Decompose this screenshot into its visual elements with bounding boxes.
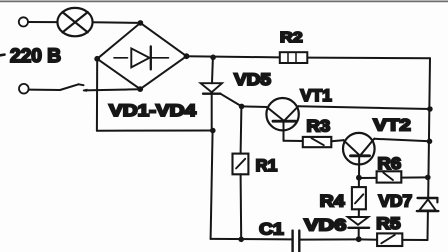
wire node to VT1 <box>242 105 267 108</box>
svg-text:R3: R3 <box>307 118 331 136</box>
wire node to R6 <box>359 177 377 179</box>
node VD5 top <box>210 55 216 61</box>
node bridge top <box>138 20 144 26</box>
bridge rectifier VD1-VD4 <box>97 23 140 59</box>
wire R4 to VD6 <box>358 209 360 217</box>
svg-text:R1: R1 <box>256 157 278 175</box>
resistor R1 <box>233 154 249 175</box>
svg-text:VD6: VD6 <box>304 217 346 235</box>
resistor R4 <box>352 187 366 209</box>
right rail <box>428 58 430 197</box>
label ~ 220 V <box>0 53 5 56</box>
diode VD5 <box>211 57 214 83</box>
wire lamp to bridge top <box>93 21 141 24</box>
svg-text:C1: C1 <box>259 220 284 238</box>
wire node to R4 <box>358 178 360 187</box>
wire VT2 emitter to right rail <box>374 139 429 142</box>
svg-text:R5: R5 <box>376 215 400 233</box>
wire node down to R1 <box>240 106 243 153</box>
capacitor C1 <box>291 231 293 252</box>
lamp HL1 <box>57 8 92 36</box>
switch SA1 <box>29 89 60 91</box>
svg-text:VD5: VD5 <box>234 71 271 89</box>
node bridge left <box>94 56 100 62</box>
diode symbol inside bridge <box>114 57 128 59</box>
terminal X1 (top left) <box>19 17 28 26</box>
terminal X2 (bottom left) <box>19 84 29 94</box>
scan border top <box>0 0 448 2</box>
svg-text:VD7: VD7 <box>379 193 413 211</box>
zener VD7 <box>418 197 438 199</box>
svg-text:VT1: VT1 <box>300 87 331 105</box>
svg-text:220 В: 220 В <box>10 46 61 67</box>
wire switch to bridge bottom <box>83 89 87 91</box>
wire R6 to rail <box>401 176 428 178</box>
node left mid <box>210 128 216 134</box>
wire R5 to rail corner <box>402 239 427 241</box>
wire top rail <box>187 56 280 57</box>
svg-text:VD1-VD4: VD1-VD4 <box>109 102 197 120</box>
svg-text:VT2: VT2 <box>373 116 411 134</box>
wire bottom rail left <box>211 238 292 241</box>
svg-text:R4: R4 <box>320 192 346 210</box>
wire VT1 base to R3 <box>284 140 303 142</box>
resistor R3 <box>303 137 332 147</box>
resistor R2 <box>280 52 308 63</box>
wire terminal to lamp <box>28 21 57 23</box>
diode VD6 <box>348 217 369 225</box>
wire left vertical to bottom rail <box>211 131 213 239</box>
wire bottom left horizontal <box>97 130 213 132</box>
svg-text:R6: R6 <box>378 155 402 173</box>
node VD5/VT1 <box>239 104 245 110</box>
wire R3 to VT2 <box>331 140 343 141</box>
svg-text:R2: R2 <box>280 29 303 46</box>
node bridge bottom <box>137 86 143 92</box>
wire bridge left down <box>96 59 98 131</box>
wire C1 to VD6 node <box>300 238 359 240</box>
node VT2 base <box>356 175 362 181</box>
resistor R5 <box>377 233 402 246</box>
wire VT1 emitter to right rail <box>298 106 430 109</box>
transistor VT1 <box>266 98 298 130</box>
transistor VT2 <box>343 133 375 165</box>
wire R1 to bottom rail <box>240 174 243 239</box>
node R1 bottom <box>238 237 244 243</box>
node bridge right <box>184 53 190 59</box>
wire VD6 node to R5 <box>359 238 377 240</box>
resistor R6 <box>377 171 402 182</box>
